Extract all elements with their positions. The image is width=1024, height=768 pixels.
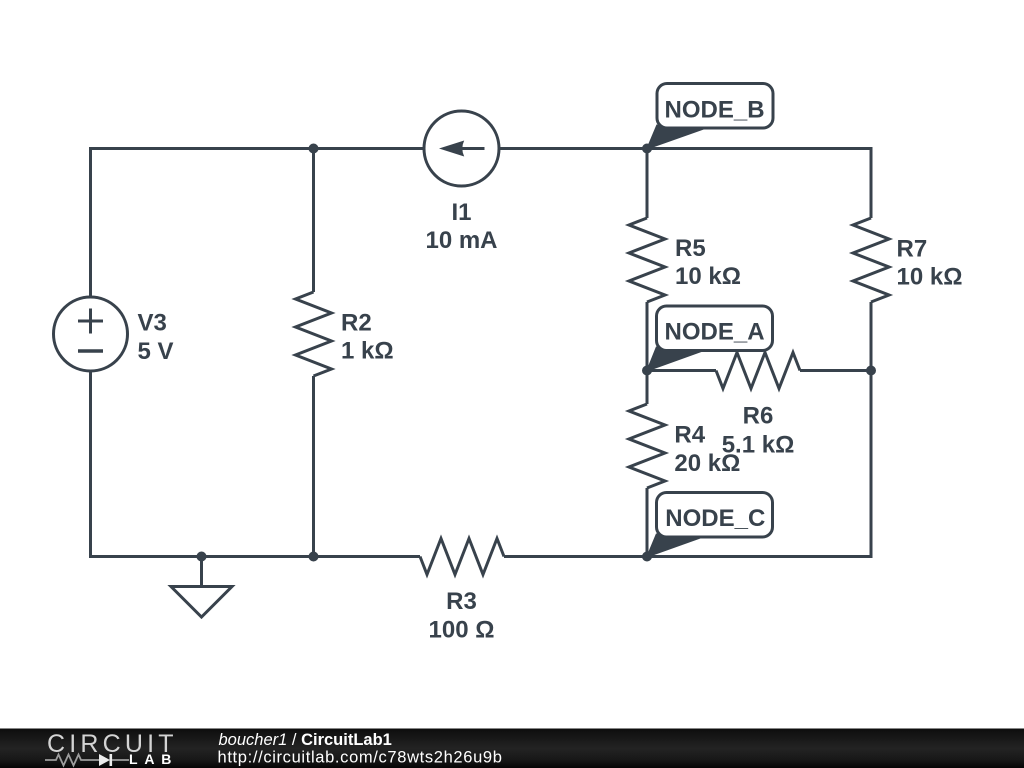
svg-text:NODE_A: NODE_A <box>665 318 765 345</box>
wire left rail lower <box>89 371 92 558</box>
svg-text:R4: R4 <box>674 422 705 449</box>
logo resistor-diode glyph <box>45 754 129 766</box>
voltage source V3 <box>54 297 128 371</box>
wire bottom rail left segment <box>89 555 420 558</box>
wire left rail upper <box>89 147 92 297</box>
svg-text:boucher1 / CircuitLab1: boucher1 / CircuitLab1 <box>219 731 392 749</box>
wire R4 lower lead <box>646 488 649 557</box>
svg-text:http://circuitlab.com/c78wts2h: http://circuitlab.com/c78wts2h26u9b <box>218 749 503 767</box>
wire R4 upper lead <box>646 371 649 405</box>
wire top rail left segment <box>89 147 424 150</box>
svg-text:100 Ω: 100 Ω <box>429 617 495 644</box>
current source I1 <box>424 111 499 186</box>
svg-text:R5: R5 <box>675 235 706 262</box>
ground <box>171 557 232 618</box>
svg-text:1 kΩ: 1 kΩ <box>341 338 394 365</box>
svg-text:R3: R3 <box>446 588 477 615</box>
node A junction dot <box>642 366 652 376</box>
wire R6 to right junction <box>800 369 871 372</box>
resistor R4 <box>629 404 665 488</box>
svg-text:5.1 kΩ: 5.1 kΩ <box>722 431 795 458</box>
svg-text:R6: R6 <box>743 403 774 430</box>
svg-text:NODE_B: NODE_B <box>665 97 765 124</box>
resistor R3 <box>420 539 504 575</box>
svg-text:10 mA: 10 mA <box>425 227 497 254</box>
svg-text:LAB: LAB <box>129 751 178 767</box>
wire R2 branch lower <box>312 376 315 557</box>
svg-text:R2: R2 <box>341 310 372 337</box>
node NODE_C flag <box>646 493 773 559</box>
resistor R2 <box>296 292 332 376</box>
wire node B to R5 <box>646 149 649 219</box>
resistor R6 <box>716 353 800 389</box>
svg-text:5 V: 5 V <box>138 338 174 365</box>
wire right rail upper <box>870 147 873 218</box>
wire R2 branch upper <box>312 149 315 293</box>
resistor R5 <box>629 218 665 302</box>
svg-text:I1: I1 <box>451 199 471 226</box>
wire node A to R6 <box>647 369 716 372</box>
svg-text:10 kΩ: 10 kΩ <box>897 264 963 291</box>
svg-text:V3: V3 <box>138 310 167 337</box>
junction dot ground <box>197 552 207 562</box>
wire R7 to right junction <box>870 302 873 371</box>
node C junction dot <box>642 552 652 562</box>
node NODE_B flag <box>646 84 773 151</box>
resistor R7 <box>853 218 889 302</box>
junction dot right R6/R7 <box>866 366 876 376</box>
node B junction dot <box>642 144 652 154</box>
wire bottom rail right segment <box>504 555 873 558</box>
node NODE_A flag <box>646 306 773 372</box>
wire right rail lower <box>870 371 873 559</box>
wire top rail right segment <box>499 147 873 150</box>
svg-text:10 kΩ: 10 kΩ <box>675 263 741 290</box>
svg-text:R7: R7 <box>897 235 928 262</box>
junction dot top R2 <box>309 144 319 154</box>
junction dot bottom R2 <box>309 552 319 562</box>
wire R5 to node A <box>646 302 649 371</box>
svg-text:NODE_C: NODE_C <box>665 505 765 532</box>
